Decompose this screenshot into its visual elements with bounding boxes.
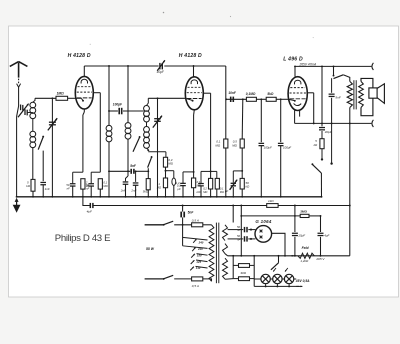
svg-text:0,5 A: 0,5 A: [192, 218, 199, 222]
svg-text:10nF: 10nF: [228, 91, 236, 95]
resistor 3MOhm bleeder: [300, 214, 309, 217]
trimmer capacitor antenna series: [20, 105, 22, 111]
wire tube3 top to HT rail: [294, 66, 296, 76]
wire plate return rail: [295, 122, 372, 124]
resistor 0.5MOhm divider: [241, 99, 244, 139]
transformer tap 220: [183, 246, 208, 249]
loudspeaker: [361, 78, 373, 115]
wire tube3 plate: [307, 92, 313, 94]
svg-text:265 V: 265 V: [315, 257, 325, 261]
wire trimmer to antenna coil: [27, 112, 33, 114]
capacitor 50nF anode1: [244, 227, 246, 232]
capacitor 4uF smoothing: [320, 216, 322, 232]
tube V1 H4128D: [75, 76, 93, 109]
capacitor 100uF electrolytic 1: [260, 99, 262, 142]
svg-text:nF: nF: [237, 228, 240, 232]
resistor 0.2MOhm plate load: [210, 170, 212, 172]
scan specks: [163, 12, 165, 14]
resistor 0.3MOhm: [163, 157, 167, 167]
wire right rail down: [349, 123, 351, 255]
svg-text:240: 240: [198, 240, 204, 244]
field coil Feld 1.2kOhm: [298, 253, 315, 258]
ground symbol: [15, 198, 18, 201]
tube V2 H4128D: [185, 77, 203, 110]
tube V3 L496D: [288, 77, 307, 111]
svg-text:265V 47mA: 265V 47mA: [299, 62, 317, 66]
capacitor 5nF mains: [182, 206, 184, 212]
power transformer core: [215, 223, 217, 284]
terminal pickup 2: [331, 123, 333, 162]
capacitor 5nF series in AVC wire: [109, 170, 130, 172]
svg-text:15μF: 15μF: [298, 234, 305, 238]
wave switch S2: [148, 157, 152, 167]
transformer tap 110: [196, 266, 208, 268]
svg-text:1,2kΩ: 1,2kΩ: [300, 259, 309, 263]
wire heater winding stubs: [225, 278, 233, 281]
capacitor 0.1uF cathode V2: [182, 172, 184, 183]
resistor 5kOhm: [146, 179, 150, 190]
wire rectified output line: [228, 255, 350, 257]
coil L4 lower: [146, 122, 148, 127]
resistor 1MOhm grid: [56, 96, 68, 100]
resistor 0.1MOhm grid leak: [225, 99, 227, 139]
trimmer capacitor volume: [233, 170, 242, 172]
svg-text:Feld: Feld: [302, 246, 310, 250]
power transformer mid secondary: [223, 244, 228, 254]
output transformer primary: [347, 81, 352, 107]
connector plug return: [372, 120, 374, 127]
capacitor 1nF: [40, 181, 46, 183]
svg-text:30Ω: 30Ω: [240, 271, 246, 275]
svg-text:MΩ: MΩ: [157, 185, 161, 189]
capacitor 1nF plate: [201, 170, 211, 172]
svg-text:μF: μF: [224, 189, 229, 193]
fuse 0.5A upper: [192, 223, 203, 227]
coil L2: [108, 66, 110, 125]
svg-text:MΩ: MΩ: [215, 143, 220, 147]
ground bus: [17, 196, 322, 198]
svg-text:nF: nF: [86, 186, 89, 190]
page background: [9, 26, 399, 297]
svg-text:Philips D 43 E: Philips D 43 E: [55, 233, 110, 244]
connector plug HT: [372, 63, 374, 70]
output transformer core: [353, 80, 355, 109]
resistor 1kOhm filament: [267, 204, 278, 208]
coil L4 upper: [147, 98, 149, 105]
wire tube2 cathode: [193, 110, 196, 115]
tube3 bottom pins: [294, 110, 296, 123]
capacitor 40uF: [321, 123, 323, 126]
svg-text:110: 110: [196, 266, 201, 270]
resistor 30 Ohm upper: [232, 256, 234, 279]
antenna coil L1 lower winding: [32, 119, 34, 132]
svg-text:4μF: 4μF: [324, 234, 329, 238]
resistor 5kOhm antenna coil return: [31, 179, 35, 191]
svg-text:MΩ: MΩ: [103, 184, 107, 188]
wire antenna to ground bus: [16, 117, 18, 197]
wire filament line: [83, 197, 90, 206]
capacitor 50nF anode2: [244, 236, 246, 241]
mains switch lower: [145, 278, 164, 280]
switch pickup S4: [311, 163, 313, 165]
svg-text:0,5 A: 0,5 A: [192, 284, 199, 288]
svg-text:100μF: 100μF: [283, 146, 291, 150]
wire lamp feed: [253, 256, 255, 287]
wire link to resistor 0.3M: [148, 151, 166, 153]
resistor 0.1MOhm cathode V2: [192, 178, 196, 188]
anode wire 1: [228, 229, 244, 231]
transformer tap 150: [197, 254, 208, 256]
tuning capacitor C1 variable: [51, 98, 53, 197]
capacitor 2nF: [126, 176, 129, 181]
wire grid line tube1: [35, 97, 56, 99]
svg-text:5kΩ: 5kΩ: [267, 92, 274, 96]
svg-text:125: 125: [196, 260, 201, 264]
power transformer primary: [209, 225, 214, 281]
wire tube1 top to feedback line: [83, 66, 85, 76]
resistor 0.1MOhm plate parallel: [211, 170, 217, 172]
resistor 5kOhm grid stopper: [266, 97, 276, 101]
svg-text:55 W: 55 W: [146, 247, 155, 251]
anode wire 2: [228, 238, 244, 240]
svg-text:H 4128 D: H 4128 D: [179, 53, 202, 59]
capacitor 100pF: [108, 110, 110, 112]
svg-text:3MΩ: 3MΩ: [300, 210, 307, 214]
lamp stabilizer: [166, 170, 174, 172]
capacitor 15uF: [294, 216, 296, 232]
wave-change switch S1: [42, 136, 44, 138]
svg-text:MΩ: MΩ: [232, 143, 237, 147]
wire signal line to output grid: [226, 98, 246, 100]
svg-text:100μF: 100μF: [264, 146, 272, 150]
power transformer heater secondary: [223, 258, 228, 279]
capacitor 50nF plate V1: [91, 171, 100, 173]
svg-text:MΩ: MΩ: [220, 190, 224, 194]
wire cathode link: [183, 171, 194, 173]
svg-text:45V 0,5A: 45V 0,5A: [295, 279, 310, 283]
resistor 0.1MOhm plate V1: [98, 179, 102, 189]
trimmer capacitor 40pF: [159, 63, 161, 70]
wire secondary top to filament line: [232, 206, 234, 223]
wire HT feed line: [241, 215, 300, 217]
coil L3: [127, 66, 129, 123]
dial lamps 3x 45V 0.5A: [261, 274, 270, 283]
wire grid line tube2: [148, 97, 185, 99]
wire grid into tube1: [76, 97, 82, 99]
mains switch upper: [145, 224, 164, 226]
capacitor 100uF electrolytic 2: [280, 99, 282, 142]
capacitor 10nF coupling: [230, 97, 232, 102]
transformer tap 125: [196, 260, 208, 262]
transformer tap 240: [183, 237, 208, 240]
wire lamp return: [254, 285, 299, 287]
svg-text:H 4128 D: H 4128 D: [68, 53, 91, 59]
antenna coil L1 upper winding: [30, 102, 36, 118]
resistor 30 Ohm lower: [233, 278, 238, 280]
svg-text:μF: μF: [177, 187, 181, 191]
band switch S1: [139, 136, 141, 138]
tone switch S3: [333, 66, 335, 75]
wire tube2 top: [193, 66, 195, 77]
junction arrow: [291, 255, 296, 257]
resistor 50kOhm: [240, 178, 244, 189]
voltage selector feed: [182, 225, 184, 246]
wire tube2 plate: [203, 92, 210, 94]
svg-text:220: 220: [197, 247, 203, 251]
wire HT rail 265V: [295, 65, 371, 67]
resistor 0.1MOhm signal: [246, 97, 256, 101]
svg-text:nF: nF: [237, 237, 240, 241]
svg-text:150: 150: [197, 253, 202, 257]
wire grid into tube3: [288, 99, 294, 100]
svg-text:1nF: 1nF: [196, 190, 201, 194]
wire coil to resistor: [32, 148, 34, 180]
svg-text:100pF: 100pF: [113, 102, 123, 106]
resistor 1MOhm lower: [163, 178, 167, 188]
resistor 2kOhm cathode V1: [81, 179, 85, 189]
capacitor 50nF cathode V1: [73, 171, 83, 173]
wire tube1 plate: [93, 92, 100, 94]
lamp shorting switch: [278, 256, 280, 263]
tuning capacitor C2 variable: [157, 97, 159, 99]
svg-text:1nF: 1nF: [45, 187, 50, 191]
wire rectifier cathode out: [272, 233, 285, 256]
capacitor 5nF tone: [331, 78, 333, 93]
fuse 0.5A lower: [192, 277, 203, 281]
wire feedback line: [84, 65, 158, 67]
svg-text:nF: nF: [67, 186, 70, 190]
svg-text:1MΩ: 1MΩ: [57, 91, 65, 95]
antenna: [10, 62, 28, 78]
terminal pickup 1: [321, 158, 323, 160]
svg-text:MΩ: MΩ: [203, 190, 207, 194]
wire tube1 cathode down: [83, 109, 85, 112]
wire coil top to grid line: [33, 98, 35, 102]
capacitor 4uF series: [89, 203, 91, 208]
wire down to coupling cap: [225, 66, 227, 99]
svg-text:1kΩ: 1kΩ: [268, 199, 274, 203]
resistor 5kOhm pickup: [320, 139, 324, 149]
svg-text:G 1064: G 1064: [255, 219, 271, 224]
svg-text:40μF: 40μF: [157, 70, 165, 74]
capacitor 2nF second: [135, 171, 137, 182]
wire screen feed: [321, 66, 323, 123]
power transformer HT secondary: [223, 225, 228, 241]
svg-text:0,1MΩ: 0,1MΩ: [246, 92, 256, 96]
svg-text:MΩ: MΩ: [168, 162, 173, 166]
output transformer secondary: [359, 81, 364, 107]
